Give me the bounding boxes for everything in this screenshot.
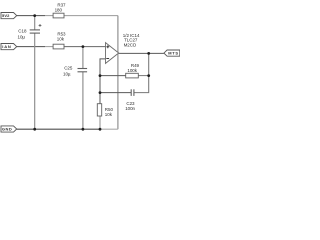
wire R50 bottom to ground [99,116,101,129]
wire C23 row y92.6 [100,92,131,94]
tag GND [1,126,17,132]
svg-text:180: 180 [55,8,63,13]
junction output/feedback column [147,52,150,55]
svg-text:10µ: 10µ [63,71,71,76]
resistor R37 [53,3,66,18]
wire feedback row y75.6 [100,75,126,77]
junction ground/R50 [99,128,102,131]
junction R53/C25 [82,45,85,48]
tag IAN [1,44,17,50]
wire ground row [17,128,100,130]
wire R53 left lead [45,46,53,48]
wire 5V2 to junction [17,15,45,17]
svg-text:C25: C25 [64,65,73,70]
svg-text:10µ: 10µ [18,35,26,40]
op-amp U1 1/2 IC14 TLC27M2CD [106,33,140,64]
resistor R49 [126,63,140,78]
svg-text:5V2: 5V2 [2,13,10,18]
svg-text:M2CD: M2CD [124,42,137,47]
junction minus/feedback [99,74,102,77]
wire op-amp output to MTS [119,52,164,54]
junction ground/C25 [82,128,85,131]
capacitor C23 [125,89,135,111]
resistor R53 [53,32,66,49]
capacitor C25 [63,65,87,76]
capacitor C18 (polarized) [18,24,42,40]
wire R37 right lead to corner [64,15,118,17]
wire C18 column [34,16,36,30]
svg-text:100n: 100n [125,106,135,111]
junction ground/C18 [33,128,36,131]
svg-text:MTS: MTS [168,51,179,56]
wire IAN to R53 [17,46,45,48]
svg-text:10k: 10k [105,112,113,117]
wire R53 to op-amp plus input [64,46,106,48]
svg-text:10k: 10k [57,37,65,42]
tag 5V2 [1,13,17,19]
wire R37 left lead [45,15,53,17]
wire C25 column [82,47,84,69]
wire op-amp minus input stub [100,59,106,104]
svg-text:C18: C18 [18,28,27,33]
tag MTS [164,50,180,56]
svg-text:GND: GND [2,127,12,132]
junction 5V2/C18 [33,14,36,17]
resistor R50 [97,104,113,117]
junction R49/feedback column [147,74,150,77]
svg-text:100k: 100k [127,68,137,73]
junction minus/C23 row [99,91,102,94]
svg-text:IAN: IAN [2,44,11,49]
wire column from R37 down through op-amp apex to ground row [117,16,119,130]
